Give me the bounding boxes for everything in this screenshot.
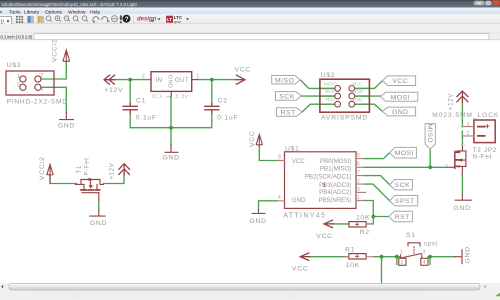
svg-text:VCC: VCC xyxy=(249,131,256,147)
svg-text:PB0(MOSI): PB0(MOSI) xyxy=(320,158,352,165)
svg-text:GND: GND xyxy=(167,75,173,89)
svg-text:0.1uF: 0.1uF xyxy=(217,114,238,121)
svg-text:4: 4 xyxy=(41,87,44,93)
svg-text:1: 1 xyxy=(197,74,200,80)
svg-text:VCC: VCC xyxy=(316,233,332,240)
svg-text:4: 4 xyxy=(423,260,426,266)
svg-text:MOSI: MOSI xyxy=(351,89,364,95)
svg-text:7: 7 xyxy=(357,170,360,176)
svg-text:3: 3 xyxy=(423,250,426,256)
svg-text:MOSI: MOSI xyxy=(391,94,410,101)
svg-text:N-Fet: N-Fet xyxy=(473,153,492,160)
svg-text:MISO: MISO xyxy=(426,124,433,143)
svg-text:+12V: +12V xyxy=(449,93,455,110)
svg-text:S: S xyxy=(460,172,463,177)
svg-text:MISO: MISO xyxy=(275,77,294,84)
svg-text:GND: GND xyxy=(465,246,472,263)
svg-text:4: 4 xyxy=(278,195,281,201)
svg-text:10K: 10K xyxy=(346,262,360,269)
svg-text:T1: T1 xyxy=(77,165,83,173)
svg-text:GND: GND xyxy=(351,97,362,103)
svg-text:GND: GND xyxy=(454,205,471,212)
svg-text:GND: GND xyxy=(90,220,107,227)
svg-text:2: 2 xyxy=(467,131,470,137)
svg-text:RST: RST xyxy=(281,110,296,117)
svg-text:PB2(SCK/ADC1): PB2(SCK/ADC1) xyxy=(305,173,352,180)
svg-text:VCC/2: VCC/2 xyxy=(39,156,46,180)
svg-text:PB5(NRES): PB5(NRES) xyxy=(318,197,351,204)
svg-text:VCC: VCC xyxy=(235,67,251,74)
svg-text:?: ? xyxy=(125,16,129,23)
svg-text:MISO: MISO xyxy=(324,81,337,87)
svg-text:5: 5 xyxy=(357,153,360,159)
svg-text:3: 3 xyxy=(166,95,172,98)
svg-text:2: 2 xyxy=(142,74,145,80)
svg-text:1: 1 xyxy=(17,74,20,80)
svg-text:GND: GND xyxy=(163,155,180,162)
svg-text:GND: GND xyxy=(392,109,409,116)
svg-text:GND: GND xyxy=(58,123,75,130)
svg-text:SPST: SPST xyxy=(395,198,415,205)
svg-text:U$2: U$2 xyxy=(321,72,336,79)
svg-text:3: 3 xyxy=(357,187,360,193)
svg-text:R2: R2 xyxy=(360,229,370,236)
svg-text:GND: GND xyxy=(292,197,306,204)
svg-text:IC1: IC1 xyxy=(152,94,163,100)
svg-text:8: 8 xyxy=(278,155,281,161)
svg-text:PB4(ADC2): PB4(ADC2) xyxy=(319,189,351,196)
svg-text:1: 1 xyxy=(467,122,470,128)
svg-text:M023.5MM_LOCK: M023.5MM_LOCK xyxy=(432,112,499,119)
svg-text:LT: LT xyxy=(167,17,173,23)
svg-text:ATTINY45: ATTINY45 xyxy=(283,213,326,220)
svg-text:SCK: SCK xyxy=(395,182,410,189)
svg-text:+12V: +12V xyxy=(110,163,116,180)
svg-text:D: D xyxy=(462,142,465,147)
svg-text:R1: R1 xyxy=(345,247,355,254)
svg-text:VCC: VCC xyxy=(292,266,308,273)
svg-text:VCC: VCC xyxy=(352,81,363,87)
svg-text:2: 2 xyxy=(401,260,404,266)
svg-text:spice: spice xyxy=(174,20,182,24)
svg-text:C2: C2 xyxy=(218,97,228,104)
svg-text:S1: S1 xyxy=(406,232,416,239)
svg-text:AVRISPSMD: AVRISPSMD xyxy=(321,114,368,121)
svg-text:PINHD-2X2-SMD: PINHD-2X2-SMD xyxy=(7,98,68,105)
svg-text:C1: C1 xyxy=(136,97,146,104)
svg-text:GND: GND xyxy=(250,218,267,225)
svg-text:+12V: +12V xyxy=(105,87,124,94)
svg-text:PB1(MISO): PB1(MISO) xyxy=(320,166,352,173)
svg-text:3: 3 xyxy=(17,83,20,89)
svg-text:\chober\Documents\eagle\Test\A: \chober\Documents\eagle\Test\Attiny45_mi… xyxy=(2,2,138,7)
svg-text:IN: IN xyxy=(156,77,163,84)
svg-text:G: G xyxy=(445,163,448,168)
svg-text:OUT: OUT xyxy=(175,77,189,84)
svg-text:VCC: VCC xyxy=(392,78,408,85)
svg-text:3.3v: 3.3v xyxy=(175,94,188,100)
svg-text:U$1: U$1 xyxy=(285,146,300,153)
svg-text:10K: 10K xyxy=(356,215,370,222)
svg-text:SCK: SCK xyxy=(325,89,336,95)
svg-text:2: 2 xyxy=(41,73,44,79)
svg-text:U$3: U$3 xyxy=(7,62,22,69)
svg-text:VCC: VCC xyxy=(292,158,306,165)
svg-text:3: 3 xyxy=(323,183,326,189)
svg-text:VCC/2: VCC/2 xyxy=(52,38,59,62)
svg-text:1: 1 xyxy=(400,250,403,256)
svg-text:SCK: SCK xyxy=(279,94,294,101)
svg-text:MOSI: MOSI xyxy=(395,150,414,157)
svg-text:1: 1 xyxy=(357,195,360,201)
svg-text:2: 2 xyxy=(357,179,360,185)
svg-text:0.1 inch (-0.5 2.8): 0.1 inch (-0.5 2.8) xyxy=(1,34,33,39)
svg-text:RST: RST xyxy=(326,97,336,103)
svg-text:P-Fet: P-Fet xyxy=(85,157,91,175)
svg-text:RST: RST xyxy=(395,214,410,221)
svg-text:spst: spst xyxy=(424,241,438,247)
svg-text:6: 6 xyxy=(357,162,360,168)
svg-text:0.1uF: 0.1uF xyxy=(136,114,157,121)
